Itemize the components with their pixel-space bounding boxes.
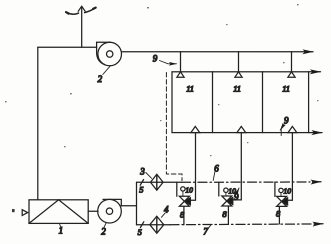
line 7 dash-dot with arrow xyxy=(170,223,312,226)
label 7 with leader xyxy=(203,225,210,236)
wire: drain drop 3 xyxy=(288,133,292,201)
label 9 (right, on bottom edge) with leader and tick xyxy=(280,116,289,136)
rotameter 4 (diamond) xyxy=(150,216,164,233)
svg-text:10: 10 xyxy=(284,187,292,196)
label 2 (top fan) xyxy=(98,66,111,84)
chamber divider 1 xyxy=(212,72,214,133)
svg-text:1: 1 xyxy=(59,226,64,236)
label 3 xyxy=(139,166,151,178)
wire: fan discharge header (top) with arrow xyxy=(121,51,313,53)
wire: drop to nozzle 3 xyxy=(291,52,293,72)
drain funnel 3 xyxy=(288,126,297,132)
svg-text:11: 11 xyxy=(282,84,290,94)
wire: line 7 solid part xyxy=(137,224,171,226)
trap valve 3 (three-way) xyxy=(277,196,288,206)
trap assembly 1: stub from line 6 xyxy=(176,182,178,196)
wire: drain drop 1 xyxy=(191,133,196,201)
chamber divider 2 xyxy=(262,72,264,133)
svg-text:2: 2 xyxy=(101,227,106,237)
label 1 xyxy=(59,224,64,236)
label 6 with leader xyxy=(213,163,219,180)
apparatus 1 (dryer box with tent) xyxy=(29,200,88,224)
spray nozzle 1 xyxy=(177,72,184,77)
fan 2 (bottom blower) xyxy=(98,199,122,223)
wire: left downcomer xyxy=(37,47,39,200)
line 6 dash-dot with arrow xyxy=(182,181,311,183)
wire: drain drop 2 xyxy=(234,133,242,200)
tick 5 (upper) xyxy=(140,180,143,186)
wire: drop to nozzle 1 xyxy=(180,52,182,72)
svg-text:5: 5 xyxy=(138,227,142,237)
trap valve 1 (three-way) xyxy=(179,196,190,206)
trap valve 2 (three-way) xyxy=(222,196,233,206)
spray nozzle 2 xyxy=(235,72,242,77)
label 9 (top left) with leader arrow xyxy=(153,54,177,64)
label 9 (trap 2) with leader arrow xyxy=(234,188,239,202)
fan 2 (top blower) xyxy=(97,42,122,66)
trap assembly 2: stub from line 6 xyxy=(218,182,220,196)
drain funnel 2 xyxy=(237,126,246,132)
trap assembly 1: pilot circle 10 xyxy=(181,185,193,196)
tick 5 (lower) xyxy=(140,222,143,228)
wire: suction duct top (horizontal) xyxy=(38,46,97,48)
wire: top edge outlet arrow xyxy=(309,71,321,73)
svg-text:2: 2 xyxy=(98,74,103,84)
label 4 xyxy=(161,204,169,217)
svg-text:9: 9 xyxy=(153,54,158,64)
wire: T riser xyxy=(136,182,138,224)
wire: line 6 solid part xyxy=(137,181,182,183)
svg-text:11: 11 xyxy=(186,84,194,94)
wire: bottom edge outlet arrow xyxy=(309,132,322,134)
inlet arrow into apparatus 1 xyxy=(22,210,27,216)
svg-text:5: 5 xyxy=(139,184,143,194)
drain funnel 1 xyxy=(191,126,200,132)
svg-text:8: 8 xyxy=(222,209,227,219)
svg-text:10: 10 xyxy=(185,185,193,194)
svg-text:8: 8 xyxy=(276,208,281,218)
wire: trap 1 to line 7 xyxy=(183,206,185,224)
rotameter 3 (diamond) xyxy=(151,174,164,190)
wire: apparatus 1 outlet xyxy=(88,210,98,212)
wire: trap 3 to line 7 xyxy=(278,206,280,224)
label 2 (bottom fan) xyxy=(101,222,106,236)
dashed control line (left of chambers) xyxy=(166,73,182,181)
svg-text:3: 3 xyxy=(139,166,145,176)
svg-text:9: 9 xyxy=(284,116,289,126)
svg-text:9: 9 xyxy=(234,192,239,202)
wire: trap 2 to line 7 xyxy=(227,206,229,224)
wire: drop to nozzle 2 xyxy=(238,52,240,72)
vent to atmosphere symbol xyxy=(66,6,96,47)
svg-text:7: 7 xyxy=(203,227,208,237)
trap assembly 3: stub from line 6 xyxy=(274,182,276,196)
svg-text:11: 11 xyxy=(233,84,241,94)
trap assembly 2: pilot circle 10 xyxy=(224,186,236,196)
spray nozzle 3 xyxy=(288,72,295,77)
trap assembly 3: pilot circle 10 xyxy=(279,187,291,197)
chamber block (three sections, pos 11) xyxy=(172,72,309,133)
wire: bottom fan outlet xyxy=(121,205,136,207)
